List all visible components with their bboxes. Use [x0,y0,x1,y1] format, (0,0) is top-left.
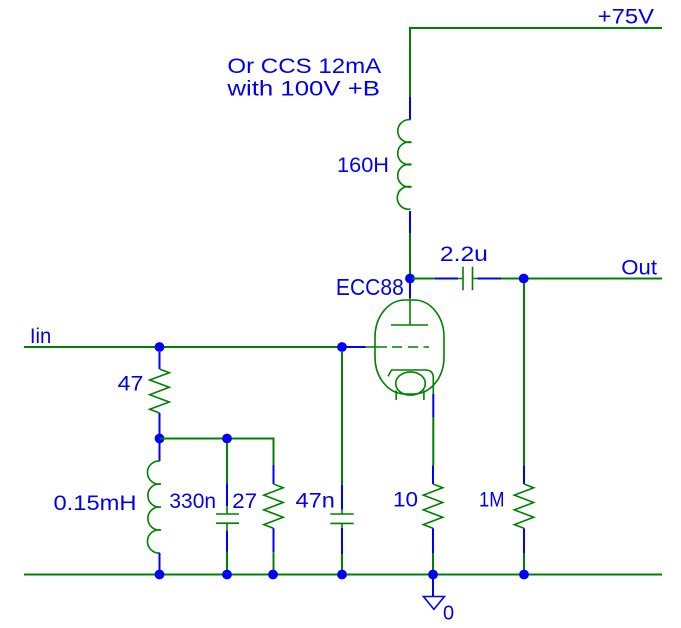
node grid junction [337,342,347,352]
ground [424,578,445,609]
svg-text:ECC88: ECC88 [336,274,404,300]
svg-text:10: 10 [393,489,418,512]
svg-text:160H: 160H [337,154,389,177]
node rail j1 [155,570,165,580]
node anode junction [405,274,415,284]
capacitor C2 330n [216,443,239,575]
svg-text:Or CCS 12mA: Or CCS 12mA [227,54,382,78]
node out junction [519,274,529,284]
cathode pin [432,394,434,417]
svg-text:1M: 1M [479,489,505,512]
svg-text:with 100V +B: with 100V +B [226,76,380,100]
svg-text:+75V: +75V [598,6,654,29]
wire Iin rail [24,346,342,348]
node rail j5 [428,570,438,580]
capacitor C1 2.2u [435,267,501,291]
resistor R4 1M [514,466,533,575]
inductor L2 0.15mH [147,443,161,575]
anode plate [391,324,428,326]
svg-text:27: 27 [232,490,257,513]
grid lead [366,346,430,348]
heater leg left [395,391,397,401]
cathode [388,370,433,394]
svg-text:2.2u: 2.2u [440,243,488,266]
wire inductor to anode node [409,233,411,276]
svg-text:0: 0 [443,603,454,625]
envelope [375,300,444,394]
grid pin [342,346,366,348]
resistor R2 27 [264,465,283,575]
node rail j3 [268,570,278,580]
svg-text:47n: 47n [296,490,335,513]
heater leg right [423,391,425,401]
resistor R3 10 [423,466,442,575]
resistor R1 47 [150,352,170,439]
svg-text:47: 47 [118,373,144,396]
node rail j4 [337,570,347,580]
anode lead [409,298,411,325]
wire C1 to Out [501,278,662,280]
wire mid horizontal [160,439,274,465]
svg-text:Iin: Iin [30,325,51,348]
node 330n junction [222,434,232,444]
wire out node down to R 1M [523,283,525,466]
wire anode node to C1 [412,278,435,280]
svg-text:Out: Out [621,257,657,280]
node Iin junction [155,342,165,352]
svg-text:0.15mH: 0.15mH [54,492,137,515]
wire +75V rail [410,28,662,97]
svg-text:330n: 330n [169,490,216,513]
node rail j6 [519,570,529,580]
wire ground rail [24,574,662,576]
anode pin [409,279,411,299]
node mid junction [155,434,165,444]
heater [396,372,426,395]
wire cathode to R10 [432,417,434,466]
inductor L1 160H [397,97,411,233]
capacitor C3 47n [330,352,353,575]
node rail j2 [222,570,232,580]
triode U1 ECC88 [342,279,444,418]
